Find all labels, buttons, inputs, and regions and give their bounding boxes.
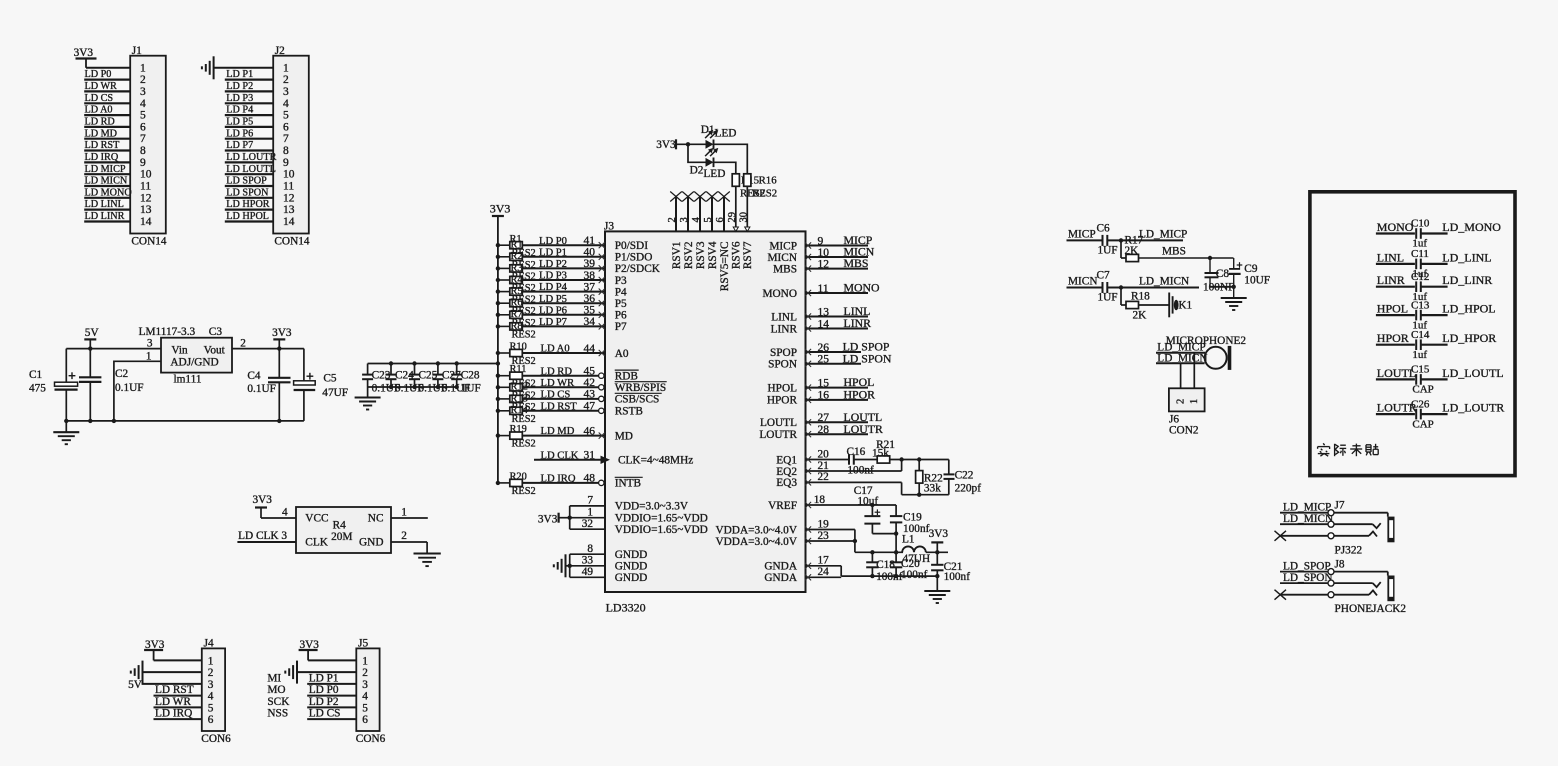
wire LD_P0 to pin 41 bbox=[522, 235, 605, 248]
svg-text:3V3: 3V3 bbox=[253, 494, 273, 506]
wire net LD_P1 to J2 pin 2 bbox=[225, 69, 273, 80]
wire pin 13 LINL bbox=[805, 304, 870, 320]
capacitor bank C23 C24 C25 C27 C28 bbox=[362, 361, 498, 394]
svg-text:C28: C28 bbox=[461, 370, 480, 382]
wire LD CS to J5 pin 6 bbox=[267, 708, 356, 720]
svg-text:LD CS: LD CS bbox=[309, 708, 341, 720]
svg-text:1: 1 bbox=[208, 655, 214, 667]
svg-text:LD_SPOP: LD_SPOP bbox=[1283, 560, 1331, 572]
svg-text:7: 7 bbox=[283, 133, 289, 145]
resistor R8 RES2 pull-up LD_P7 bbox=[496, 321, 536, 341]
svg-text:RSV2: RSV2 bbox=[683, 241, 695, 269]
svg-text:10: 10 bbox=[818, 247, 830, 259]
svg-text:LD RST: LD RST bbox=[85, 140, 121, 151]
svg-text:5: 5 bbox=[362, 702, 368, 714]
svg-text:GNDA: GNDA bbox=[764, 561, 797, 573]
svg-text:12: 12 bbox=[818, 258, 830, 270]
ground symbol regulator bbox=[53, 421, 79, 444]
wire 3V3 to D1 anode bbox=[676, 142, 706, 146]
svg-text:3V3: 3V3 bbox=[74, 47, 94, 59]
svg-text:MBS: MBS bbox=[773, 263, 797, 275]
wire pin 26 LD SPOP bbox=[805, 340, 890, 356]
svg-text:LD MONO: LD MONO bbox=[85, 187, 132, 198]
wire pin 15 HPOL bbox=[805, 375, 874, 391]
svg-text:LD P4: LD P4 bbox=[539, 282, 568, 293]
svg-text:28: 28 bbox=[818, 424, 830, 436]
svg-text:10UF: 10UF bbox=[1244, 274, 1270, 286]
svg-text:2K: 2K bbox=[1125, 245, 1140, 257]
svg-text:MICN: MICN bbox=[768, 252, 798, 264]
svg-text:LD P2: LD P2 bbox=[309, 696, 339, 708]
svg-text:GNDD: GNDD bbox=[615, 561, 648, 573]
svg-text:NSS: NSS bbox=[267, 708, 288, 720]
svg-text:C14: C14 bbox=[1411, 329, 1430, 341]
svg-text:J4: J4 bbox=[204, 638, 214, 650]
wire net LD_P0 to J1 pin 2 bbox=[84, 69, 130, 80]
capacitor C13 1uf coupling HPOL bbox=[1376, 299, 1496, 331]
resistor R14 RES2 bbox=[496, 405, 536, 425]
svg-text:GND: GND bbox=[359, 537, 383, 549]
svg-text:P4: P4 bbox=[615, 286, 627, 298]
svg-text:46: 46 bbox=[584, 425, 596, 437]
wire net LD_IRQ to J1 pin 9 bbox=[84, 152, 130, 163]
wire net LD_WR to J1 pin 3 bbox=[84, 81, 130, 92]
svg-text:7: 7 bbox=[140, 133, 146, 145]
svg-text:VREF: VREF bbox=[768, 500, 797, 512]
svg-text:12: 12 bbox=[283, 192, 295, 204]
wire J7 sleeve bbox=[1280, 510, 1388, 517]
svg-text:HPOR: HPOR bbox=[767, 395, 798, 407]
svg-text:MBS: MBS bbox=[844, 256, 869, 270]
svg-text:LD P6: LD P6 bbox=[539, 305, 567, 316]
svg-text:37: 37 bbox=[584, 281, 596, 293]
svg-text:11: 11 bbox=[818, 283, 829, 295]
svg-text:LD LOUTL: LD LOUTL bbox=[226, 164, 276, 175]
svg-text:3V3: 3V3 bbox=[272, 327, 292, 339]
jack body J8 bbox=[1387, 576, 1394, 602]
svg-text:LD CLK 3: LD CLK 3 bbox=[238, 530, 287, 542]
wire net LD_LOUTL to J2 pin 10 bbox=[225, 164, 276, 175]
svg-text:LD_LINR: LD_LINR bbox=[1442, 273, 1492, 287]
svg-text:HPOR: HPOR bbox=[1377, 331, 1409, 345]
svg-text:13: 13 bbox=[818, 306, 830, 318]
svg-text:LD_MONO: LD_MONO bbox=[1442, 220, 1501, 234]
svg-text:SPON: SPON bbox=[768, 359, 797, 371]
svg-text:LD IRQ: LD IRQ bbox=[541, 474, 576, 485]
svg-text:MONO: MONO bbox=[762, 288, 797, 300]
capacitor C20 100nf bbox=[890, 552, 928, 581]
svg-text:INTB: INTB bbox=[615, 478, 641, 490]
wire net LD_RST to J1 pin 8 bbox=[84, 140, 130, 151]
wire LD_P1 to pin 40 bbox=[522, 247, 605, 260]
svg-text:RES2: RES2 bbox=[512, 486, 536, 497]
svg-text:LINR: LINR bbox=[771, 323, 798, 335]
svg-text:LD_MICP: LD_MICP bbox=[1283, 501, 1331, 513]
wire pin 22 EQ3 bbox=[805, 471, 949, 495]
ground at GNDD pins bbox=[554, 554, 570, 577]
capacitor C7 1UF bbox=[1097, 270, 1118, 304]
svg-text:49: 49 bbox=[582, 566, 594, 578]
svg-text:LD3320: LD3320 bbox=[606, 601, 646, 615]
svg-text:LED: LED bbox=[715, 128, 737, 140]
svg-text:C3: C3 bbox=[209, 326, 223, 338]
svg-text:WRB/SPIS: WRB/SPIS bbox=[615, 382, 666, 394]
svg-text:PHONEJACK2: PHONEJACK2 bbox=[1335, 603, 1407, 615]
wire pin 9 MICP bbox=[805, 233, 873, 249]
svg-text:Vout: Vout bbox=[204, 345, 226, 357]
svg-text:GNDD: GNDD bbox=[615, 549, 648, 561]
svg-text:RSV5=NC: RSV5=NC bbox=[719, 242, 731, 292]
wire pin 14 LINR bbox=[805, 316, 871, 332]
wire ADJ pin 1 bbox=[114, 361, 161, 421]
svg-text:27: 27 bbox=[818, 412, 830, 424]
wire pin 10 MICN bbox=[805, 245, 875, 261]
wire pin 16 HPOR bbox=[805, 388, 875, 404]
svg-text:RSV6: RSV6 bbox=[731, 241, 743, 269]
svg-text:18: 18 bbox=[814, 494, 826, 506]
svg-text:LD_LOUTL: LD_LOUTL bbox=[1442, 366, 1503, 380]
svg-text:L1: L1 bbox=[902, 534, 915, 546]
wire LD_P3 to pin 38 bbox=[522, 270, 605, 283]
svg-text:LD_MICN: LD_MICN bbox=[1139, 276, 1189, 288]
svg-text:43: 43 bbox=[584, 389, 596, 401]
svg-text:6: 6 bbox=[283, 121, 289, 133]
svg-text:2: 2 bbox=[667, 217, 678, 222]
capacitor C26 CAP coupling LOUTR bbox=[1376, 398, 1504, 430]
power 3V3 at J1 pin 1 bbox=[74, 47, 97, 68]
svg-text:100nf: 100nf bbox=[944, 571, 971, 583]
svg-text:MICN: MICN bbox=[1068, 276, 1098, 288]
svg-text:RES2: RES2 bbox=[752, 187, 777, 199]
svg-text:LD P3: LD P3 bbox=[539, 271, 567, 282]
wire 3V3 to J4 pin 1 bbox=[154, 659, 202, 661]
svg-text:A0: A0 bbox=[615, 348, 629, 360]
svg-text:P6: P6 bbox=[615, 310, 627, 322]
svg-text:LD RST: LD RST bbox=[155, 684, 194, 696]
svg-text:LD_MICP: LD_MICP bbox=[1139, 228, 1187, 240]
svg-text:C16: C16 bbox=[847, 446, 866, 458]
wire LD_P5 to pin 36 bbox=[522, 293, 605, 306]
resistor R1 RES2 pull-up LD_P0 bbox=[496, 234, 536, 259]
wire J8 tip contact no-connect bbox=[1275, 590, 1378, 600]
svg-text:MBS: MBS bbox=[1162, 246, 1186, 258]
jack body J7 bbox=[1387, 517, 1394, 543]
capacitor C18 100nf bbox=[866, 552, 902, 583]
svg-text:Vin: Vin bbox=[171, 345, 188, 357]
svg-text:LD P1: LD P1 bbox=[539, 247, 567, 258]
chip interior right pin names bbox=[715, 240, 797, 584]
wire ground to J4 pin 2 bbox=[143, 671, 202, 673]
svg-text:6: 6 bbox=[208, 714, 214, 726]
ground at oscillator bbox=[414, 554, 441, 567]
svg-text:R19: R19 bbox=[510, 424, 527, 435]
svg-text:CAP: CAP bbox=[1412, 384, 1433, 396]
svg-text:NC: NC bbox=[368, 513, 384, 525]
svg-text:C19: C19 bbox=[903, 512, 922, 524]
capacitor C6 1UF bbox=[1097, 223, 1118, 257]
svg-text:4: 4 bbox=[362, 691, 368, 703]
svg-text:35: 35 bbox=[584, 305, 596, 317]
resistor R7 RES2 pull-up LD_P6 bbox=[496, 309, 536, 329]
net label MICN wire bbox=[1067, 276, 1102, 288]
svg-text:42: 42 bbox=[584, 377, 596, 389]
svg-text:P2/SDCK: P2/SDCK bbox=[615, 263, 661, 275]
resistor R10 RES2 bbox=[496, 342, 536, 368]
wire MBS net bbox=[1139, 246, 1234, 261]
wire LD WR to J4 pin 5 bbox=[154, 696, 202, 708]
svg-text:5: 5 bbox=[140, 110, 146, 122]
svg-text:P1/SDO: P1/SDO bbox=[615, 252, 653, 264]
wire L1 to 3V3 node bbox=[926, 550, 948, 554]
wire net LD_HPOL to J2 pin 14 bbox=[225, 211, 273, 222]
svg-text:PJ322: PJ322 bbox=[1335, 544, 1363, 556]
svg-text:47: 47 bbox=[584, 401, 596, 413]
svg-text:lm111: lm111 bbox=[174, 374, 202, 386]
svg-text:LD_HPOL: LD_HPOL bbox=[1442, 302, 1495, 316]
svg-text:LD P0: LD P0 bbox=[539, 236, 567, 247]
svg-text:SCK: SCK bbox=[267, 696, 290, 708]
wire 5V to J4 pin 3 bbox=[128, 679, 202, 691]
capacitor C12 1uf coupling LINR bbox=[1376, 271, 1492, 303]
svg-text:100nf: 100nf bbox=[901, 569, 928, 581]
svg-text:LD SPON: LD SPON bbox=[843, 351, 892, 365]
svg-text:3V3: 3V3 bbox=[656, 139, 676, 151]
svg-text:LD IRQ: LD IRQ bbox=[85, 152, 119, 163]
wire pins 19 23 VDDA bbox=[805, 518, 857, 552]
svg-text:13: 13 bbox=[140, 204, 152, 216]
LED D1 bbox=[701, 124, 737, 149]
svg-text:LD RST: LD RST bbox=[541, 401, 578, 412]
power 3V3 at J4 pin 1 bbox=[144, 639, 165, 660]
ground rail bottom of regulator bbox=[66, 420, 304, 422]
svg-text:LD P0: LD P0 bbox=[85, 69, 112, 80]
svg-text:10: 10 bbox=[283, 169, 295, 181]
svg-text:3V3: 3V3 bbox=[490, 202, 511, 216]
svg-text:J2: J2 bbox=[275, 45, 285, 57]
wire J8 sleeve bbox=[1280, 569, 1388, 576]
svg-text:R11: R11 bbox=[510, 364, 527, 375]
svg-text:5V: 5V bbox=[85, 327, 100, 339]
svg-text:GNDA: GNDA bbox=[764, 572, 797, 584]
svg-text:LD RD: LD RD bbox=[85, 117, 115, 128]
svg-text:3V3: 3V3 bbox=[538, 513, 558, 525]
connector J5 CON6 bbox=[356, 648, 379, 731]
svg-text:LD MICN: LD MICN bbox=[85, 176, 128, 187]
svg-text:44: 44 bbox=[584, 343, 596, 355]
svg-text:1: 1 bbox=[362, 655, 368, 667]
svg-text:0.1UF: 0.1UF bbox=[247, 383, 276, 395]
svg-text:1UF: 1UF bbox=[461, 383, 481, 395]
svg-text:LD IRQ: LD IRQ bbox=[155, 708, 192, 720]
svg-text:HPOL: HPOL bbox=[768, 382, 798, 394]
svg-text:LD A0: LD A0 bbox=[541, 344, 570, 355]
svg-text:CON6: CON6 bbox=[356, 733, 386, 745]
resistor R12 RES2 bbox=[496, 382, 536, 402]
svg-text:LD P7: LD P7 bbox=[226, 140, 253, 151]
svg-text:1: 1 bbox=[1189, 399, 1200, 404]
svg-text:2: 2 bbox=[401, 530, 407, 542]
svg-text:16: 16 bbox=[818, 390, 830, 402]
svg-text:CAP: CAP bbox=[1412, 418, 1433, 430]
svg-text:1UF: 1UF bbox=[1098, 292, 1118, 304]
svg-text:36: 36 bbox=[584, 293, 596, 305]
svg-text:C2: C2 bbox=[115, 368, 129, 380]
svg-text:33: 33 bbox=[582, 555, 594, 567]
svg-text:1: 1 bbox=[140, 62, 146, 74]
svg-text:12: 12 bbox=[140, 192, 152, 204]
svg-text:6: 6 bbox=[715, 217, 726, 222]
capacitor C1 475 electrolytic bbox=[29, 349, 78, 421]
svg-text:40: 40 bbox=[584, 247, 596, 259]
svg-text:LD LINL: LD LINL bbox=[85, 199, 124, 210]
resistor R15 RES2 bbox=[732, 174, 765, 200]
svg-text:14: 14 bbox=[818, 318, 830, 330]
junction cap bank to 3V3 rail bbox=[496, 361, 500, 365]
svg-text:13: 13 bbox=[283, 204, 295, 216]
svg-text:CON14: CON14 bbox=[131, 236, 166, 248]
svg-text:11: 11 bbox=[283, 181, 294, 193]
svg-text:LINR: LINR bbox=[844, 316, 872, 330]
svg-text:P5: P5 bbox=[615, 298, 627, 310]
capacitor C8 100NF bbox=[1203, 258, 1234, 293]
wire LD_P6 to pin 35 bbox=[522, 305, 605, 318]
svg-text:100NF: 100NF bbox=[1203, 281, 1234, 293]
box not-mounted caps bbox=[1310, 192, 1515, 476]
IC J3 LD3320 body bbox=[605, 231, 806, 592]
junction dots regulator bbox=[64, 346, 281, 423]
svg-text:VDD=3.0~3.3V: VDD=3.0~3.3V bbox=[615, 501, 689, 513]
svg-text:8: 8 bbox=[283, 145, 289, 157]
svg-text:7: 7 bbox=[587, 495, 593, 507]
svg-text:LD P1: LD P1 bbox=[226, 69, 253, 80]
svg-text:LINR: LINR bbox=[1377, 273, 1405, 287]
svg-text:LD HPOR: LD HPOR bbox=[226, 199, 270, 210]
resistor R4 RES2 pull-up LD_P3 bbox=[496, 274, 536, 294]
svg-text:32: 32 bbox=[582, 518, 594, 530]
svg-text:LD P3: LD P3 bbox=[226, 93, 253, 104]
resistor R21 15k bbox=[854, 439, 895, 463]
svg-text:LD_LOUTR: LD_LOUTR bbox=[1442, 401, 1504, 415]
svg-text:2: 2 bbox=[1176, 399, 1187, 404]
svg-text:14: 14 bbox=[140, 216, 152, 228]
wire pin 11 MONO bbox=[805, 281, 880, 297]
svg-text:4: 4 bbox=[691, 217, 702, 223]
svg-text:LD SPON: LD SPON bbox=[226, 187, 269, 198]
power 3V3 at VDD pins bbox=[538, 513, 570, 526]
svg-text:LD_SPON: LD_SPON bbox=[1283, 572, 1333, 584]
svg-text:CON14: CON14 bbox=[274, 236, 309, 248]
svg-text:LD P7: LD P7 bbox=[539, 317, 567, 328]
wire J7 tip contact no-connect bbox=[1275, 531, 1378, 541]
capacitor C11 1uf coupling LINL bbox=[1376, 248, 1492, 280]
power 5V bbox=[84, 327, 99, 349]
svg-text:LD P2: LD P2 bbox=[226, 81, 253, 92]
wire net LD_SPON to J2 pin 12 bbox=[225, 187, 273, 198]
svg-text:2: 2 bbox=[362, 667, 368, 679]
wire D1 cathode to R16 bbox=[714, 144, 748, 174]
wire LD_RST to pin 47 bbox=[522, 401, 605, 414]
svg-text:3: 3 bbox=[140, 86, 146, 98]
svg-text:GNDD: GNDD bbox=[615, 572, 648, 584]
wire 3V3 rail vertical bbox=[497, 216, 499, 483]
wire pin 21 EQ2 to node A bbox=[805, 460, 902, 475]
resistor R18 2K bbox=[1121, 288, 1150, 322]
wire net LD_P3 to J2 pin 4 bbox=[225, 93, 273, 104]
svg-text:C26: C26 bbox=[1411, 398, 1430, 410]
svg-text:J8: J8 bbox=[1335, 558, 1345, 570]
svg-text:14: 14 bbox=[283, 216, 295, 228]
jack K1 bbox=[1139, 293, 1193, 318]
resistor R13 RES2 bbox=[496, 393, 536, 413]
svg-text:HPOR: HPOR bbox=[844, 388, 876, 402]
svg-text:MD: MD bbox=[615, 430, 633, 442]
wire 3V3 to J5 pin 1 bbox=[308, 659, 356, 661]
svg-text:475: 475 bbox=[29, 383, 46, 395]
svg-text:D2: D2 bbox=[690, 164, 704, 176]
svg-text:1uf: 1uf bbox=[1412, 349, 1427, 361]
power 3V3 left rail bbox=[490, 202, 511, 217]
wire mic pin 2 bbox=[1180, 363, 1182, 388]
wire net LD_MICN to J1 pin 11 bbox=[84, 176, 130, 187]
wire LD P1 to J5 pin 3 bbox=[267, 672, 356, 684]
svg-text:RSV1: RSV1 bbox=[671, 242, 683, 270]
svg-text:45: 45 bbox=[584, 366, 596, 378]
wire net LD_SPOP to J2 pin 11 bbox=[225, 176, 273, 187]
svg-text:CLK: CLK bbox=[305, 537, 328, 549]
svg-text:LD_LINL: LD_LINL bbox=[1442, 250, 1491, 264]
wire NC pin 1 bbox=[391, 507, 428, 519]
svg-text:LD P0: LD P0 bbox=[309, 684, 339, 696]
LED D2 bbox=[690, 148, 726, 180]
svg-text:5: 5 bbox=[703, 217, 714, 222]
wire LD_IRQ to pin 48 bbox=[522, 473, 605, 486]
svg-text:C1: C1 bbox=[29, 369, 42, 381]
wire pins 8 33 49 GNDD bbox=[568, 543, 606, 578]
wire net LD_MD to J1 pin 7 bbox=[84, 128, 130, 139]
svg-text:RSV3: RSV3 bbox=[695, 241, 707, 269]
wire net LD_HPOR to J2 pin 13 bbox=[225, 199, 273, 210]
capacitor C21 100nf bbox=[931, 552, 970, 583]
wire net LD_A0 to J1 pin 5 bbox=[84, 105, 130, 116]
svg-text:LOUTR: LOUTR bbox=[844, 422, 883, 436]
svg-text:R20: R20 bbox=[510, 471, 527, 482]
chip interior left pin names bbox=[615, 240, 708, 584]
svg-text:C11: C11 bbox=[1411, 248, 1429, 260]
svg-text:19: 19 bbox=[818, 518, 830, 530]
svg-text:VDDA=3.0~4.0V: VDDA=3.0~4.0V bbox=[715, 536, 797, 548]
svg-text:C22: C22 bbox=[955, 470, 974, 482]
svg-text:C15: C15 bbox=[1411, 364, 1430, 376]
wire 3V3 to J1 pin 1 bbox=[86, 67, 130, 69]
wire J8 ring contact bbox=[1280, 580, 1381, 587]
svg-text:MO: MO bbox=[267, 684, 285, 696]
svg-text:9: 9 bbox=[140, 157, 146, 169]
wire net LD_CS to J1 pin 4 bbox=[84, 93, 130, 104]
svg-text:RSV4: RSV4 bbox=[707, 241, 719, 269]
svg-text:22: 22 bbox=[818, 471, 830, 483]
svg-text:3: 3 bbox=[362, 679, 368, 691]
svg-text:2: 2 bbox=[208, 667, 214, 679]
svg-text:P7: P7 bbox=[615, 321, 627, 333]
wire pin 12 MBS bbox=[805, 256, 869, 272]
svg-text:1: 1 bbox=[401, 507, 407, 519]
connector J2 CON14 bbox=[273, 56, 309, 234]
svg-text:220pf: 220pf bbox=[955, 483, 982, 495]
wire ground to J2 pin 1 bbox=[214, 67, 274, 69]
wire Vout pin 2 bbox=[232, 348, 304, 350]
svg-text:LINL: LINL bbox=[771, 311, 797, 323]
net label MICP wire bbox=[1067, 228, 1102, 240]
